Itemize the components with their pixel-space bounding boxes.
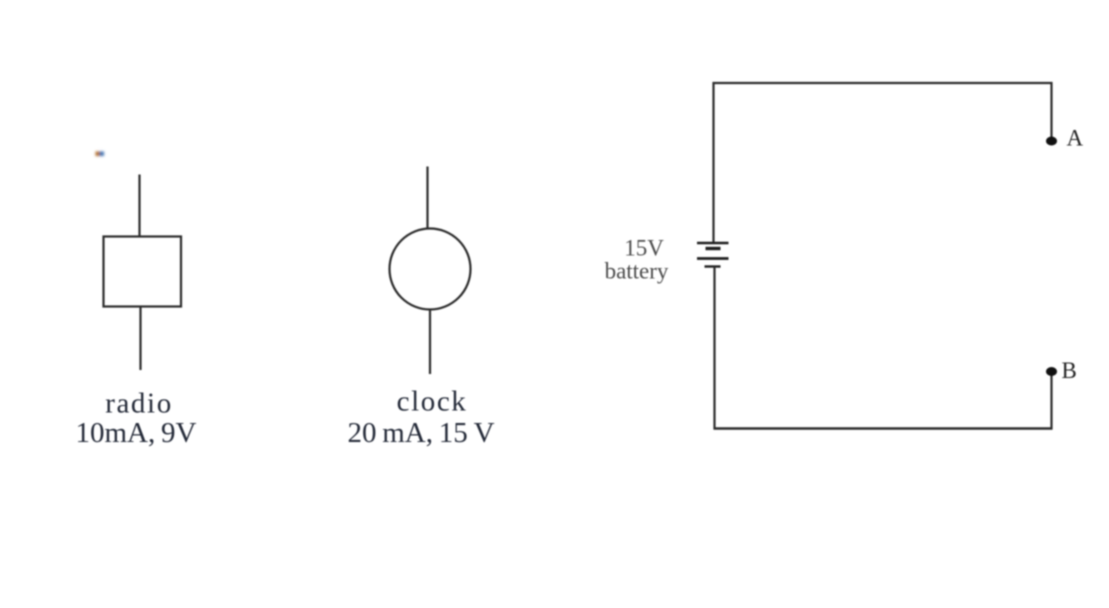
battery B1 (15V): [697, 243, 729, 267]
node A dot: [1046, 137, 1057, 146]
wire: bottom-right vertical up to node B: [1050, 375, 1052, 430]
svg-text:radio: radio: [105, 388, 173, 420]
node B dot: [1046, 367, 1057, 376]
clock bottom lead wire: [429, 310, 431, 375]
stray scan mark: [96, 152, 105, 157]
radio top lead wire: [138, 175, 140, 237]
svg-text:B: B: [1062, 358, 1077, 383]
label: 15V battery: [605, 236, 669, 284]
radio bottom lead wire: [139, 307, 141, 371]
svg-text:A: A: [1067, 126, 1084, 151]
radio symbol box: [104, 237, 182, 307]
svg-text:battery: battery: [605, 259, 669, 284]
svg-text:clock: clock: [397, 386, 468, 418]
clock top lead wire: [426, 167, 428, 230]
wire: top horizontal: [713, 82, 1053, 84]
wire: bottom horizontal: [714, 427, 1053, 429]
wire: right vertical down to node A: [1050, 82, 1052, 137]
clock symbol circle: [390, 229, 471, 310]
svg-text:10mA, 9V: 10mA, 9V: [76, 417, 197, 449]
svg-text:15V: 15V: [624, 236, 664, 261]
wire: battery negative down to bottom-left corner: [713, 267, 715, 430]
wire: battery positive up to top-left corner: [712, 82, 714, 243]
svg-text:20 mA, 15 V: 20 mA, 15 V: [347, 417, 494, 449]
